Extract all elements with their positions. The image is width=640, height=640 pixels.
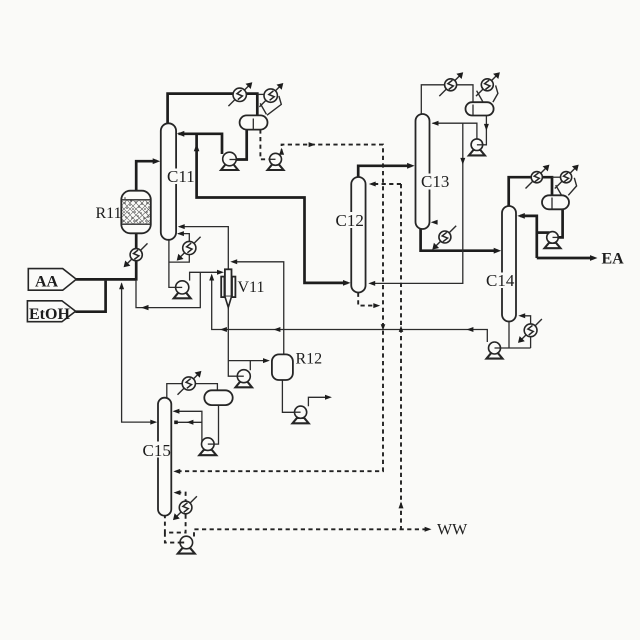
wire P5 discharge (537, 231, 550, 234)
HX-LAYER (124, 72, 579, 520)
wire C15 overhead to condenser and drum D4 (167, 384, 218, 399)
wire P9 discharge reflux into C15 (176, 411, 202, 441)
wire R12 bottoms to pump P8 (282, 380, 294, 412)
svg-text:R11: R11 (96, 205, 122, 222)
wire recycle into feed junction (136, 272, 200, 307)
wire dashed recycle into C12 (373, 183, 401, 185)
arrow P3 discharge into V11 (217, 270, 224, 275)
heat exchanger H6 vent condenser C13 (481, 79, 493, 91)
heat exchanger H5 condenser C13 (445, 79, 457, 91)
wire C15 reboiler loop dashed (165, 493, 186, 533)
wire C14 reboiler loop (521, 316, 530, 348)
utility line H3 (178, 237, 201, 260)
wire D4 outlet to pump P9 (214, 405, 218, 444)
arrow reboiler return into C11 (177, 231, 184, 236)
arrow up on split line (194, 144, 200, 151)
pump P5 reflux C14 (545, 232, 561, 249)
reactor R11 packing hatch (122, 200, 150, 224)
feed flag EtOH (27, 301, 75, 322)
vessel V11 body (225, 269, 232, 296)
arrow left marker on side line (187, 420, 194, 425)
wire D2 outlet to pump P4 (483, 115, 487, 145)
utility line H12 (174, 496, 197, 519)
wire C14 overhead to condenser and drum D3 (509, 177, 552, 206)
vessel V11 right plate (232, 277, 235, 298)
wire vent line to H9 (552, 176, 561, 178)
FEED-FLAGS-LAYER (27, 269, 76, 322)
arrow left marker on long recycle at 277 (274, 327, 281, 332)
label C11 (166, 169, 194, 185)
wire C11 bottoms to pump P3 (169, 239, 176, 287)
svg-text:C15: C15 (143, 441, 171, 460)
heat exchanger H7 reboiler C13 (439, 231, 451, 243)
arrow P7 discharge into R12 (263, 358, 270, 363)
wire C12 bottoms dashed (358, 293, 375, 306)
heat exchanger H11 condenser C15 (182, 377, 195, 390)
label C13 (420, 174, 448, 190)
wire AA feed line (76, 278, 136, 281)
wire split line to C12 feed (197, 134, 348, 283)
utility line H6 (476, 74, 499, 97)
arrow recycle to feed junction (141, 305, 149, 310)
column C14 (502, 206, 516, 322)
vessel V11 cone (225, 297, 232, 308)
arrow V11 overhead into C11 (178, 224, 185, 229)
utility line H9 (555, 166, 578, 189)
arrow feed into C15 (150, 420, 157, 425)
utility line H11 (178, 372, 201, 395)
pump P1 reflux C11 (221, 152, 238, 170)
arrow R12 overhead into V11 line (230, 259, 237, 264)
arrow dashed recycle into C12 right (369, 182, 376, 187)
wire P10 discharge WW header dashed (194, 529, 428, 536)
wire P4 discharge reflux into C13 (433, 123, 477, 139)
drum D1 inner line (252, 119, 254, 130)
label C12 (335, 212, 363, 228)
drum D3 (542, 195, 569, 209)
arrow down C13 recycle (460, 158, 465, 165)
cap square on side line (174, 421, 178, 425)
wire C15 bottoms to pump P10 dashed (165, 533, 180, 543)
utility line H7 (434, 226, 457, 249)
heat exchanger H4 feed preheater (130, 249, 142, 261)
column C12 (351, 177, 365, 293)
heat exchanger H9 vent condenser C14 (561, 172, 572, 183)
arrow dashed recycle into C15 (173, 469, 180, 474)
svg-text:R12: R12 (296, 351, 323, 368)
wire dashed vertical from WW header to C12 (400, 184, 402, 529)
funnel H6 to D2 (477, 85, 498, 102)
wire C11 reboiler loop (169, 234, 189, 263)
wire D3 outlet to pump P5 (553, 209, 563, 237)
label C14 (485, 273, 513, 289)
utility line H8 (526, 166, 549, 189)
heat exchanger H8 condenser C14 (531, 172, 542, 183)
arrow reflux into C13 (432, 121, 439, 126)
drum D2 inner line (472, 105, 474, 116)
arrow C12 bottoms into dashed header (373, 303, 380, 308)
reactor R11 packing bottom line (122, 223, 151, 225)
arrow recycle into C12 right (368, 281, 375, 286)
arrow up C14 recycle merge (209, 274, 214, 281)
heat exchanger H12 reboiler C15 (179, 501, 192, 514)
arrow up on WW riser (399, 502, 404, 509)
arrow reboiler return into C14 (518, 313, 525, 318)
wire R11 outlet to C11 (136, 161, 157, 191)
LABELS-LAYER (29, 167, 624, 539)
pump P8 bottoms R12 (293, 406, 309, 423)
arrow reflux into C14 (517, 213, 525, 219)
wire EtOH feed line (75, 281, 105, 312)
utility line H5 (439, 74, 462, 97)
drum D2 (466, 102, 494, 115)
PIPES-LAYER (75, 85, 594, 543)
arrow up C15 recycle to feed (119, 282, 124, 289)
arrow reboiler return into C13 (431, 220, 438, 225)
wire C12 overhead to C13 feed (358, 166, 411, 177)
pump P7 feed R12 (236, 370, 253, 388)
arrow feed into C14 (494, 248, 502, 254)
reactor R11 packing stipple (121, 197, 150, 223)
pump P2 distillate C11 (268, 153, 284, 170)
vessel V11 left plate (221, 277, 224, 298)
wire C14 reflux and EA draw (520, 216, 537, 258)
VESSELS-LAYER (121, 102, 569, 516)
wire C13 bottoms to C14 feed (421, 229, 498, 251)
heat exchanger H2 vent condenser C11 (264, 89, 277, 102)
wire EA product line (537, 257, 594, 260)
heat exchanger H10 reboiler C14 (524, 324, 537, 337)
arrow down marker on dashed drop at 383 (381, 324, 386, 330)
arrow reflux into C11 (177, 131, 185, 137)
pump P6 bottoms C14 (487, 342, 503, 359)
wire C14 bottoms long recycle (212, 275, 488, 342)
drum D3 inner line (551, 198, 553, 209)
wire vent line to H2 (257, 93, 266, 95)
wire V11 bottoms to pump P7 (228, 307, 237, 377)
wire P9 side line with cap (176, 421, 202, 423)
wire C14 bottoms header (501, 321, 531, 348)
svg-text:EtOH: EtOH (29, 306, 70, 323)
wire D1 outlet to reflux pump P1 (230, 129, 247, 159)
wire P1 discharge reflux into C11 (179, 134, 223, 154)
FUNNELS-LAYER (260, 85, 576, 195)
svg-text:AA: AA (35, 274, 59, 291)
wire D1 right outlet to pump P2 dashed (260, 129, 269, 159)
UTILITY-DIAGONALS-LAYER (125, 74, 578, 519)
pump P10 bottoms C15 (178, 536, 195, 553)
utility line H10 (519, 319, 542, 342)
utility line H2 (259, 84, 282, 107)
arrow feed into C13 (407, 163, 415, 169)
heat exchanger H1 condenser C11 (233, 88, 246, 101)
arrow EA product (590, 255, 598, 261)
pump P3 bottoms C11 (174, 281, 191, 299)
wire C11 overhead to condenser and drum (168, 94, 258, 124)
svg-text:EA: EA (602, 251, 625, 268)
funnel H9 to D3 (556, 178, 577, 196)
arrow dashed reboiler return into C15 (174, 490, 181, 495)
column C15 (158, 398, 171, 516)
arrow down D2 outlet (484, 124, 489, 131)
arrow left marker on long recycle at 224 (220, 327, 227, 332)
wire P3 discharge to V11 (190, 272, 222, 280)
arrow P8 discharge end (325, 395, 332, 400)
wire C13 overhead to condenser and drum D2 (421, 85, 473, 114)
column C11 (161, 123, 176, 240)
wire P8 discharge (308, 397, 329, 406)
utility line H4 (125, 243, 148, 266)
pump P4 reflux C13 (469, 139, 485, 156)
ARROWHEADS-LAYER (119, 121, 597, 532)
wire V11 overhead to C11 (179, 227, 228, 270)
arrow WW product (425, 527, 432, 532)
arrow left marker on long recycle at 470 (467, 327, 474, 332)
funnel H2 to D1 (260, 96, 281, 115)
arrow up P2 discharge (279, 148, 284, 155)
wire P7 discharge into R12 (228, 361, 267, 371)
wire C15 feed from junction (122, 284, 155, 423)
arrow R11 outlet into C11 (153, 158, 161, 164)
reactor R11 (121, 191, 151, 234)
arrow feed into C12 (343, 280, 351, 286)
heat exchanger H3 reboiler C11 (183, 241, 196, 254)
arrow right marker on distillate dashed (309, 142, 316, 147)
wire P2 discharge distillate dashed to C15 (178, 145, 383, 472)
drum D1 (240, 115, 268, 129)
wire C13 distillate recycle to C12 (372, 123, 463, 283)
pump P9 reflux C15 (199, 438, 216, 455)
column C13 (416, 114, 430, 229)
drum D4 (204, 390, 232, 405)
wire feed riser through preheater to R11 (135, 233, 138, 280)
label C15 (142, 442, 170, 458)
svg-text:C14: C14 (486, 271, 515, 290)
svg-text:WW: WW (437, 522, 468, 539)
utility line H1 (228, 84, 251, 107)
svg-text:C12: C12 (336, 211, 364, 230)
arrow reflux into C15 (173, 409, 180, 414)
arrow up marker on dashed riser at 401 (399, 326, 404, 332)
svg-text:C13: C13 (421, 172, 449, 191)
feed flag AA (28, 269, 76, 291)
svg-text:C11: C11 (167, 167, 195, 186)
reactor R12 (272, 354, 293, 380)
wire R12 overhead to V11 line (233, 262, 284, 356)
PUMPS-LAYER (174, 139, 561, 554)
svg-text:V11: V11 (238, 279, 265, 296)
reactor R11 packing top line (122, 199, 151, 201)
